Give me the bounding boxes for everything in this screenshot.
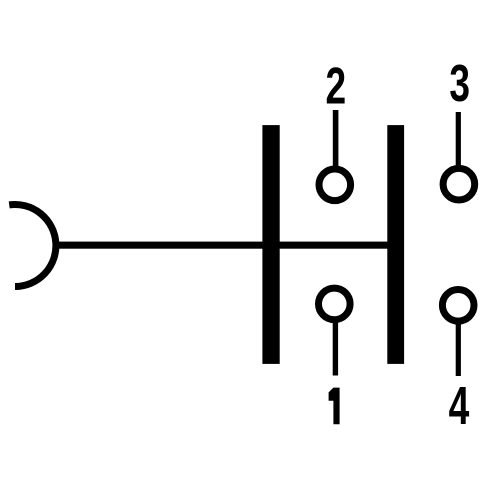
wire: lead to terminal 3 xyxy=(456,112,461,166)
contact bar (movable bridge, left) xyxy=(262,125,279,364)
svg-text:3: 3 xyxy=(449,54,470,113)
actuator arc (push-button head) xyxy=(9,205,56,287)
terminal circle 2 xyxy=(319,169,351,201)
terminal circle 3 xyxy=(443,168,475,200)
terminal circle 1 xyxy=(319,288,351,320)
svg-text:2: 2 xyxy=(325,56,346,115)
wire: lead to terminal 1 xyxy=(333,318,338,376)
svg-text:4: 4 xyxy=(449,375,470,435)
terminal circle 4 xyxy=(442,290,474,322)
pin label 1 xyxy=(329,388,340,425)
contact bar (movable bridge, right) xyxy=(387,125,404,364)
wire: lead to terminal 2 xyxy=(333,110,339,170)
wire: actuator horizontal link xyxy=(54,242,396,249)
wire: lead to terminal 4 xyxy=(456,320,461,376)
